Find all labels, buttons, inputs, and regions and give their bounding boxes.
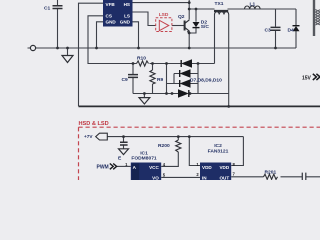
svg-text:L1: L1 <box>250 1 256 7</box>
svg-text:15V: 15V <box>302 76 312 82</box>
svg-text:+7V: +7V <box>84 134 93 139</box>
svg-text:IC2: IC2 <box>214 143 222 149</box>
svg-text:S/C: S/C <box>201 24 210 30</box>
svg-text:R200: R200 <box>158 143 170 149</box>
svg-text:FODM8071: FODM8071 <box>131 156 157 162</box>
svg-text:D4: D4 <box>288 28 295 34</box>
svg-text:HSD & LSD: HSD & LSD <box>79 121 109 127</box>
svg-text:IC1: IC1 <box>140 150 148 156</box>
svg-text:VCC: VCC <box>149 165 159 170</box>
svg-text:D7,D8,D9,D10: D7,D8,D9,D10 <box>190 77 222 83</box>
svg-text:CS: CS <box>106 14 112 19</box>
svg-text:PWM: PWM <box>97 165 109 171</box>
svg-text:LSD: LSD <box>159 12 169 18</box>
svg-text:GND: GND <box>106 20 117 25</box>
svg-text:R10: R10 <box>137 56 146 62</box>
svg-text:GND: GND <box>120 20 131 25</box>
svg-text:R201: R201 <box>265 169 277 175</box>
svg-text:TX1: TX1 <box>215 1 224 7</box>
svg-text:C3: C3 <box>265 28 272 34</box>
svg-text:C9: C9 <box>122 77 129 83</box>
svg-text:VDD: VDD <box>219 165 229 170</box>
svg-text:VFB: VFB <box>106 2 116 7</box>
svg-text:HS: HS <box>124 2 130 7</box>
svg-text:R9: R9 <box>157 77 164 83</box>
svg-text:C1: C1 <box>44 5 51 11</box>
svg-text:VDD: VDD <box>202 165 212 170</box>
svg-text:Q2: Q2 <box>178 14 185 20</box>
svg-text:VO: VO <box>152 175 159 180</box>
svg-text:LS: LS <box>124 14 130 19</box>
svg-text:OUT: OUT <box>219 175 229 180</box>
svg-text:IN: IN <box>202 175 207 180</box>
svg-text:FAN3121: FAN3121 <box>208 148 229 154</box>
